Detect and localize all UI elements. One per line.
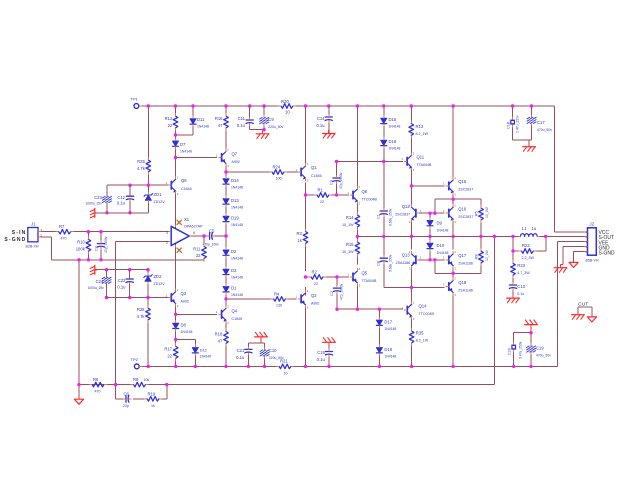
ground main left [74, 397, 83, 404]
resistor R23 [511, 260, 531, 278]
wire Q14 emitter R35 [411, 319, 413, 367]
wire J2 pin1 VCC [555, 231, 588, 233]
svg-text:D18: D18 [384, 347, 392, 352]
svg-text:D12: D12 [200, 349, 207, 353]
svg-text:10: 10 [285, 110, 290, 115]
svg-text:1N4148: 1N4148 [389, 125, 401, 129]
resistor R13 [409, 120, 429, 138]
svg-text:2SA1186: 2SA1186 [458, 289, 473, 293]
svg-text:ZD12V: ZD12V [154, 200, 166, 204]
resistor R9 [130, 377, 149, 387]
wire Q4 emitter R18 [225, 323, 227, 367]
transistor Q11 [401, 152, 432, 172]
svg-text:C14: C14 [317, 116, 325, 121]
svg-text:1N4148: 1N4148 [437, 229, 449, 233]
wire R2 to Q5 base [306, 276, 349, 278]
svg-text:1u: 1u [532, 226, 537, 231]
connector J1 [26, 222, 43, 249]
svg-text:22: 22 [168, 123, 173, 128]
svg-text:10_1W: 10_1W [485, 206, 489, 218]
resistor R35 [409, 328, 428, 346]
svg-text:1N4148: 1N4148 [180, 150, 192, 154]
diode D10 [427, 240, 448, 255]
svg-text:C12: C12 [117, 195, 125, 200]
svg-text:22: 22 [320, 200, 324, 204]
svg-text:R15: R15 [346, 242, 354, 247]
capacitor C15 [317, 349, 333, 363]
resistor R25 [137, 157, 151, 175]
svg-text:A992: A992 [181, 300, 189, 304]
wire C11 C9 legs [250, 106, 266, 131]
svg-text:D2: D2 [231, 249, 237, 254]
diode D18 [376, 344, 396, 358]
svg-text:C15: C15 [317, 350, 325, 355]
wire D8 R17 D12 node [176, 331, 196, 367]
svg-text:R7: R7 [59, 224, 65, 229]
resistor R3 [296, 228, 307, 246]
svg-text:100k: 100k [76, 247, 86, 252]
resistor R21 [276, 359, 294, 376]
svg-text:D10: D10 [437, 243, 445, 248]
wire bias line to Q2 base [226, 298, 297, 300]
resistor R24 [269, 165, 287, 181]
svg-text:R10: R10 [77, 240, 85, 245]
svg-text:D1: D1 [231, 286, 237, 291]
svg-text:1N4148: 1N4148 [231, 276, 243, 280]
wire D11 column [176, 106, 194, 135]
svg-text:R20: R20 [281, 99, 289, 104]
capacitor C24 [88, 274, 112, 290]
resistor R6 [89, 377, 107, 394]
transistor Q7 [216, 148, 240, 168]
diode D13 [223, 196, 243, 210]
resistor R11 [193, 243, 206, 261]
svg-text:47: 47 [218, 339, 223, 344]
svg-text:8.2_1W: 8.2_1W [416, 132, 429, 136]
wire R13 column [410, 106, 412, 153]
svg-text:Q7: Q7 [232, 152, 238, 157]
svg-text:2SA1186: 2SA1186 [458, 262, 473, 266]
capacitor C8 [377, 254, 393, 272]
capacitor C23 [85, 193, 111, 205]
zener diode ZD1 [144, 191, 165, 204]
wire Q16 column [452, 194, 454, 249]
capacitor C4 [95, 236, 108, 253]
label S-IN S-GND [4, 230, 26, 243]
wire C10 column [264, 343, 266, 366]
svg-text:C9: C9 [268, 117, 274, 122]
svg-text:1N4148: 1N4148 [231, 293, 243, 297]
svg-text:220u_50v: 220u_50v [268, 125, 283, 129]
capacitor C5 [203, 229, 220, 247]
resistor R5 [474, 205, 489, 223]
svg-text:D3: D3 [231, 268, 237, 273]
svg-text:1N4148: 1N4148 [231, 186, 243, 190]
transistor Q14 [402, 300, 435, 320]
diode D17 [376, 317, 396, 331]
wire C3 column [336, 162, 338, 196]
wire R22 bypass [513, 236, 546, 251]
wire Q8 emitter to Q3 emitter [175, 158, 177, 290]
wire op-amp inverting input [116, 241, 169, 384]
transistor Q18 [443, 277, 473, 297]
wire ground branch [78, 260, 80, 397]
svg-text:Q12: Q12 [402, 204, 411, 209]
svg-text:R19: R19 [148, 391, 156, 396]
transistor Q4 [216, 305, 242, 325]
resistor R17 [164, 343, 178, 361]
svg-text:R17: R17 [164, 347, 172, 352]
capacitor C11 [237, 116, 253, 128]
svg-text:C5: C5 [209, 229, 215, 234]
svg-text:2.2_3W: 2.2_3W [522, 256, 535, 260]
svg-text:470: 470 [61, 237, 67, 241]
svg-text:0.1u: 0.1u [517, 292, 524, 296]
svg-text:100: 100 [276, 177, 282, 181]
svg-text:R23: R23 [517, 263, 525, 268]
resistor R12 [165, 113, 178, 131]
wire VCC top rail [139, 106, 555, 232]
svg-text:TTC004B: TTC004B [362, 198, 378, 202]
svg-text:R9: R9 [133, 377, 139, 382]
wire C18 C17 top filter [513, 106, 532, 143]
wire D9 D10 column [429, 213, 431, 260]
svg-text:Q5: Q5 [362, 271, 368, 276]
transistor Q12 [395, 203, 422, 223]
svg-text:B5B-VH: B5B-VH [586, 259, 599, 263]
svg-text:0.68u_250v: 0.68u_250v [389, 208, 393, 226]
resistor R4 [270, 292, 288, 308]
inductor L1 [518, 226, 539, 236]
diode D7 [173, 138, 192, 154]
svg-text:1N4148: 1N4148 [231, 206, 243, 210]
resistor R19 [144, 391, 162, 408]
ground C14 [322, 130, 335, 138]
svg-text:2SC2837: 2SC2837 [458, 188, 473, 192]
diode D16 [381, 137, 401, 150]
svg-text:D14: D14 [231, 178, 239, 183]
svg-text:470u_50v: 470u_50v [537, 128, 552, 132]
capacitor C12 [117, 193, 134, 205]
resistor R18 [215, 328, 229, 346]
svg-text:C1845: C1845 [232, 317, 243, 321]
svg-text:TP2: TP2 [131, 357, 139, 362]
svg-text:Q4: Q4 [232, 309, 238, 314]
svg-text:C1845: C1845 [181, 187, 192, 191]
wire R5 column [435, 199, 481, 251]
wire R23 C13 zobel [512, 251, 514, 295]
diode D15 [381, 115, 401, 128]
capacitor C9 [260, 115, 284, 130]
svg-text:C24: C24 [96, 279, 104, 284]
ground C21 C10 [255, 332, 268, 340]
ground C15 [323, 338, 336, 346]
ground C19 C20 [525, 320, 538, 328]
svg-text:1N4148: 1N4148 [384, 327, 396, 331]
wire NPN driver base line [417, 212, 444, 214]
wire Q2 collector [305, 304, 307, 366]
svg-text:R6: R6 [93, 377, 99, 382]
svg-text:R22: R22 [522, 243, 530, 248]
capacitor C18 [507, 115, 520, 133]
svg-text:R4: R4 [274, 292, 280, 297]
svg-text:0.68u_250v: 0.68u_250v [389, 254, 393, 272]
wire C1 bootstrap column [383, 162, 385, 237]
cut jumper symbol [572, 302, 597, 322]
ground J2 pin5 [569, 260, 578, 267]
svg-text:Q8: Q8 [181, 178, 187, 183]
svg-text:A992: A992 [232, 160, 240, 164]
transistor Q17 [443, 250, 473, 270]
svg-text:R5: R5 [474, 211, 478, 216]
wire C6 R19 branch [116, 385, 167, 399]
svg-text:C23: C23 [94, 195, 102, 200]
capacitor C20 [507, 341, 522, 359]
wire R25 ZD1 column [147, 106, 149, 213]
svg-text:1N4148: 1N4148 [231, 223, 243, 227]
svg-text:C3: C3 [330, 180, 334, 185]
transistor Q2 [295, 289, 319, 309]
svg-text:4.7k: 4.7k [137, 166, 146, 171]
svg-text:8.2_1W: 8.2_1W [416, 339, 429, 343]
resistor R10 [76, 236, 91, 254]
ground J2 pin4 [554, 264, 567, 272]
wire R10 column [87, 232, 89, 260]
svg-text:Q17: Q17 [458, 253, 467, 258]
svg-text:Q16: Q16 [458, 207, 467, 212]
svg-text:C19: C19 [536, 346, 544, 351]
capacitor C13 [509, 282, 525, 296]
capacitor C6 [123, 391, 132, 408]
capacitor C22 [117, 276, 133, 290]
wire Q13 collector to Q14 [411, 266, 413, 302]
svg-text:10_1W: 10_1W [342, 250, 354, 254]
resistor R1 [314, 188, 332, 205]
X1 offset pin marks [177, 220, 181, 252]
svg-text:D19: D19 [231, 216, 239, 221]
svg-text:C13: C13 [517, 284, 525, 289]
svg-text:130: 130 [276, 304, 282, 308]
wire C8 column [383, 236, 385, 287]
svg-text:Q3: Q3 [181, 291, 187, 296]
svg-text:J2: J2 [590, 222, 595, 227]
diode D3 [223, 266, 243, 280]
wire D15 D16 bias column [383, 106, 385, 162]
svg-text:C17: C17 [537, 120, 545, 125]
svg-text:1N4148: 1N4148 [437, 251, 449, 255]
svg-text:CUT: CUT [578, 302, 588, 307]
svg-text:R18: R18 [215, 332, 223, 337]
diode D12 [192, 344, 211, 358]
svg-text:R16: R16 [215, 116, 223, 121]
wire R12 D7 column [175, 106, 177, 158]
capacitor C1 [377, 208, 393, 226]
svg-text:0.1u: 0.1u [317, 357, 326, 362]
wire C23 C12 legs [107, 185, 130, 213]
svg-text:1000u_25v: 1000u_25v [85, 202, 102, 206]
svg-text:470p_100v: 470p_100v [203, 243, 220, 247]
svg-text:C18: C18 [507, 122, 511, 129]
svg-text:R14: R14 [346, 215, 354, 220]
wire negative reg node to Q3 base [107, 297, 169, 299]
svg-text:D11: D11 [197, 117, 205, 122]
svg-text:2SC2837: 2SC2837 [395, 213, 410, 217]
op-amp X1 [166, 217, 203, 247]
wire Q6 collector [356, 106, 358, 187]
capacitor C10 [260, 347, 284, 360]
svg-text:ZD1: ZD1 [154, 192, 163, 197]
transistor Q8 [166, 175, 192, 195]
resistor R20 [278, 99, 296, 115]
diode D14 [223, 176, 243, 190]
diode D8 [173, 320, 193, 334]
svg-text:0.1u: 0.1u [117, 201, 126, 206]
resistor R28 [137, 305, 151, 323]
wire VEE bottom rail [139, 241, 557, 366]
svg-text:0.1u: 0.1u [316, 123, 325, 128]
svg-text:D8: D8 [181, 323, 187, 328]
svg-text:ZD2: ZD2 [154, 274, 163, 279]
diode D2 [223, 247, 243, 261]
ground C17 C18 [523, 143, 536, 151]
wire Q15 base line [412, 185, 445, 187]
svg-text:D17: D17 [384, 320, 392, 325]
zener diode ZD2 [144, 273, 165, 287]
svg-text:1N4148: 1N4148 [181, 330, 193, 334]
svg-text:TTC004B: TTC004B [419, 312, 435, 316]
test point TP2 [131, 357, 143, 369]
wire Q7 collector to Q1 base [226, 171, 297, 173]
svg-text:C1: C1 [377, 214, 381, 219]
svg-text:Q6: Q6 [362, 189, 368, 194]
wire input line J1 to op-amp [42, 231, 169, 233]
svg-text:TP1: TP1 [131, 97, 139, 102]
wire R8 upper [480, 263, 482, 265]
svg-text:C1845: C1845 [311, 174, 322, 178]
ground negative regulator [90, 265, 97, 275]
wire positive reg node to Q8 base [107, 184, 169, 186]
svg-text:Q13: Q13 [402, 253, 411, 258]
resistor R15 [342, 239, 360, 257]
svg-text:10k: 10k [144, 378, 150, 382]
svg-text:J1: J1 [31, 222, 36, 227]
svg-text:TTA004B: TTA004B [362, 279, 378, 283]
wire C4 column [100, 232, 102, 260]
svg-text:D7: D7 [180, 142, 186, 147]
svg-text:R1: R1 [318, 188, 324, 193]
svg-text:Q18: Q18 [458, 280, 467, 285]
svg-text:R24: R24 [273, 165, 281, 170]
svg-text:0.1u: 0.1u [117, 285, 126, 290]
wire Q15 collector [452, 106, 454, 178]
svg-text:C8: C8 [377, 261, 381, 266]
connector J2 [584, 222, 599, 263]
ground C9 C11 [256, 131, 269, 139]
svg-text:S-IN: S-IN [12, 230, 27, 236]
resistor R16 [215, 113, 228, 131]
capacitor C17 [527, 114, 552, 132]
svg-text:2SC2837: 2SC2837 [458, 215, 473, 219]
svg-text:A992: A992 [311, 302, 319, 306]
svg-text:R35: R35 [416, 331, 424, 336]
transistor Q16 [443, 203, 473, 223]
resistor R7 [56, 224, 74, 241]
svg-text:R8: R8 [474, 254, 478, 259]
svg-text:C11: C11 [238, 116, 246, 121]
transistor Q6 [347, 185, 377, 205]
svg-text:2: 2 [166, 241, 168, 245]
svg-text:R21: R21 [280, 359, 288, 364]
svg-text:22: 22 [314, 282, 318, 286]
wire R1 to Q6 base [306, 194, 349, 196]
svg-text:R28: R28 [137, 307, 145, 312]
ground positive regulator [90, 208, 97, 218]
svg-text:C21: C21 [237, 348, 245, 353]
svg-text:10_1W: 10_1W [342, 223, 354, 227]
svg-text:Q15: Q15 [458, 179, 467, 184]
svg-text:1N4148: 1N4148 [200, 355, 211, 359]
svg-text:3: 3 [166, 231, 168, 235]
capacitor C21 [236, 346, 252, 360]
svg-text:TTA004B: TTA004B [417, 163, 433, 167]
wire bias node to Q11 base [337, 161, 404, 163]
transistor Q1 [295, 162, 321, 182]
svg-text:0.1u: 0.1u [237, 123, 246, 128]
svg-text:C20: C20 [507, 348, 511, 355]
resistor R8 [474, 248, 489, 266]
wire Q5 collector to Q14 base line [337, 283, 403, 309]
wire Q7 base line [176, 157, 218, 159]
svg-text:R11: R11 [193, 247, 201, 252]
svg-text:47: 47 [218, 123, 223, 128]
svg-text:C2: C2 [330, 291, 334, 296]
labels J2 pins [599, 230, 616, 257]
svg-text:R12: R12 [165, 116, 173, 121]
svg-text:X1: X1 [184, 217, 190, 222]
wire J2 pin3 VEE [558, 240, 588, 242]
svg-text:Q2: Q2 [311, 293, 317, 298]
wire PNP driver base line [417, 259, 444, 261]
svg-text:4.7_3W: 4.7_3W [517, 271, 530, 275]
transistor Q3 [166, 288, 189, 308]
wire Q11 collector to Q12 [411, 170, 413, 205]
wire Q17 Q18 column [452, 266, 454, 366]
svg-text:D16: D16 [389, 139, 397, 144]
wire negative reg ground line [97, 269, 148, 271]
wire Q18 base line [384, 287, 445, 289]
wire R11 branch [203, 236, 205, 260]
wire op-amp output to C5 node [192, 235, 226, 237]
svg-text:2SA1186: 2SA1186 [396, 261, 411, 265]
svg-text:47p_1000v: 47p_1000v [339, 172, 343, 189]
svg-text:22: 22 [167, 354, 172, 359]
capacitor C14 [316, 114, 332, 128]
svg-text:S-GND: S-GND [4, 237, 26, 243]
wire C5 link [204, 235, 210, 237]
wire J2 pin4 GND [563, 247, 588, 265]
svg-text:D15: D15 [389, 117, 397, 122]
svg-text:C10: C10 [269, 348, 277, 353]
svg-text:1N4148: 1N4148 [197, 125, 209, 129]
svg-text:Q1: Q1 [311, 165, 317, 170]
diode D11 [190, 116, 209, 129]
svg-text:R13: R13 [416, 124, 424, 129]
wire ZD2 R28 column [147, 270, 149, 367]
svg-text:D9: D9 [437, 221, 443, 226]
wire C2 column [336, 277, 338, 309]
test point TP1 [131, 97, 142, 109]
svg-text:B2B-XH: B2B-XH [26, 245, 39, 249]
